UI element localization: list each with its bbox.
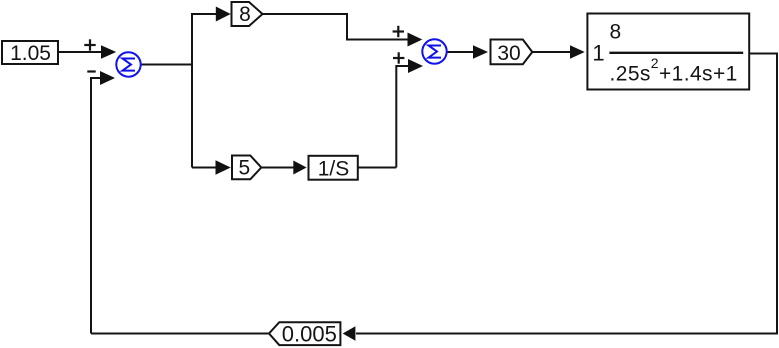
svg-text:8: 8 <box>610 21 622 44</box>
svg-text:8: 8 <box>239 3 251 26</box>
svg-text:1: 1 <box>592 41 604 66</box>
svg-text:5: 5 <box>239 157 251 180</box>
svg-text:0.005: 0.005 <box>282 321 337 346</box>
svg-text:1.05: 1.05 <box>10 42 51 65</box>
svg-text:30: 30 <box>497 42 520 65</box>
svg-text:1/S: 1/S <box>318 157 350 180</box>
